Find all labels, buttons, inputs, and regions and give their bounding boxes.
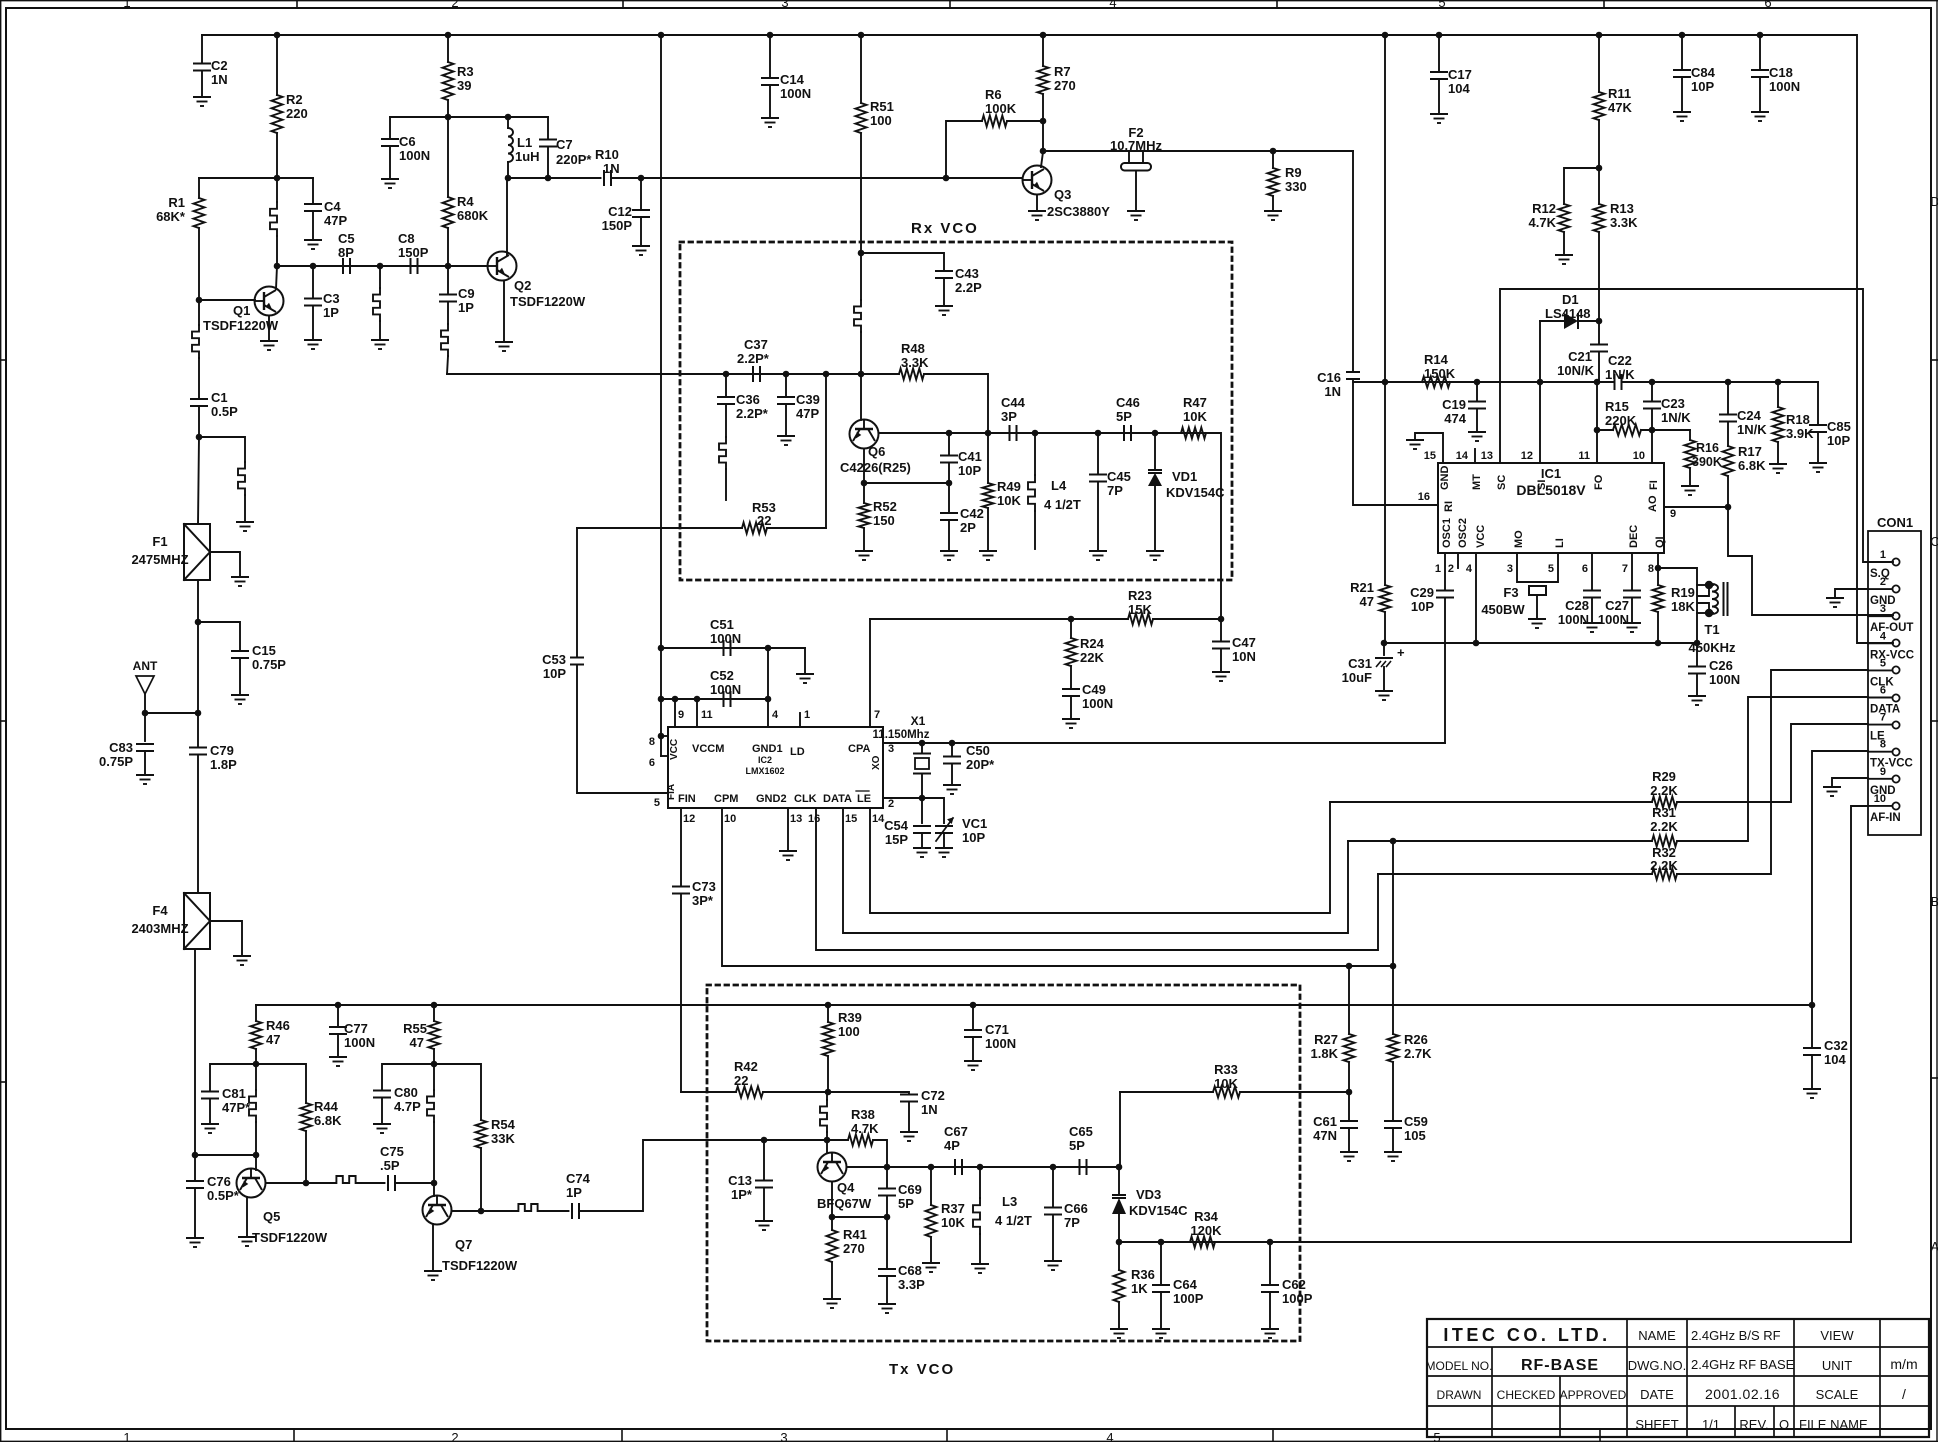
svg-text:C74: C74 — [566, 1171, 591, 1186]
CON1 pin 7 LE — [1892, 721, 1899, 728]
capacitor C84 — [1681, 35, 1683, 70]
capacitor C14 — [769, 35, 771, 78]
svg-text:QI: QI — [1654, 536, 1666, 548]
junction R26 feed — [1390, 838, 1397, 845]
IC U2 LMX1602 PLL — [668, 727, 883, 808]
transistor Q7 TSDF1220W — [423, 1196, 452, 1225]
svg-text:R47: R47 — [1183, 395, 1207, 410]
junction rail — [445, 32, 452, 39]
svg-text:C51: C51 — [710, 617, 734, 632]
capacitor C28 — [1591, 553, 1593, 590]
wire to Tx VCO — [579, 1140, 764, 1211]
capacitor C73 3P* — [680, 808, 682, 886]
resistor R23 15K — [1128, 614, 1153, 625]
svg-text:4.7K: 4.7K — [1529, 215, 1557, 230]
ground — [1688, 696, 1706, 705]
capacitor C23 — [1651, 382, 1653, 401]
svg-text:R7: R7 — [1054, 64, 1071, 79]
CON1 pin 8 TX-VCC — [1892, 748, 1899, 755]
capacitor C51 100N — [661, 647, 805, 649]
svg-text:6.8K: 6.8K — [1738, 458, 1766, 473]
ground — [1751, 112, 1769, 121]
svg-text:8P: 8P — [338, 245, 354, 260]
svg-text:104: 104 — [1448, 81, 1470, 96]
ground — [231, 577, 249, 586]
svg-text:5: 5 — [1548, 563, 1554, 575]
svg-text:10P: 10P — [958, 463, 981, 478]
svg-text:3: 3 — [781, 0, 788, 10]
svg-text:R9: R9 — [1285, 165, 1302, 180]
svg-text:C31: C31 — [1348, 656, 1372, 671]
wire R3 node — [390, 116, 548, 118]
ground — [193, 97, 211, 106]
svg-text:L3: L3 — [1002, 1194, 1017, 1209]
microstrip stub C36 open — [719, 437, 726, 469]
svg-text:C71: C71 — [985, 1022, 1009, 1037]
junction R46 — [253, 1061, 260, 1068]
ground — [1089, 551, 1107, 560]
ground — [913, 848, 931, 857]
capacitor C21 — [1598, 321, 1600, 344]
svg-text:10N/K: 10N/K — [1557, 363, 1594, 378]
border column ticks bottom — [293, 1429, 295, 1442]
ground — [632, 246, 650, 255]
svg-text:5P: 5P — [1116, 409, 1132, 424]
junction C24 — [1725, 379, 1732, 386]
junction C61 — [1346, 1089, 1353, 1096]
resistor R11 47K — [1598, 35, 1600, 92]
ground — [1062, 719, 1080, 728]
capacitor C80 — [382, 1064, 434, 1090]
ground — [1146, 551, 1164, 560]
svg-text:R10: R10 — [595, 147, 619, 162]
junction R44/collector — [303, 1180, 310, 1187]
svg-text:GND1: GND1 — [752, 743, 783, 755]
CON1 pin 9 GND — [1892, 775, 1899, 782]
svg-text:CPA: CPA — [848, 743, 870, 755]
wire LE chain — [870, 802, 1330, 913]
ground — [1555, 255, 1573, 264]
junction rail — [658, 32, 665, 39]
svg-text:+: + — [1397, 645, 1405, 660]
svg-text:L4: L4 — [1051, 478, 1067, 493]
svg-text:Q4: Q4 — [837, 1180, 855, 1195]
svg-text:TSDF1220W: TSDF1220W — [510, 294, 586, 309]
ground — [979, 551, 997, 560]
svg-text:Q2: Q2 — [514, 278, 531, 293]
ground — [1823, 787, 1841, 796]
svg-text:4 1/2T: 4 1/2T — [995, 1213, 1032, 1228]
capacitor C46 — [1124, 425, 1131, 441]
svg-text:47K: 47K — [1608, 100, 1632, 115]
wire CPA to R23 — [870, 618, 1128, 620]
capacitor C19 — [1476, 382, 1478, 401]
junction C3 — [310, 263, 317, 270]
wire VCCM feed — [660, 35, 662, 736]
svg-text:C67: C67 — [944, 1124, 968, 1139]
svg-text:2P: 2P — [960, 520, 976, 535]
ground — [1673, 112, 1691, 121]
svg-text:150P: 150P — [602, 218, 633, 233]
wire to ground — [804, 648, 806, 674]
junction R12/R13 — [1596, 165, 1603, 172]
svg-text:FI: FI — [1648, 480, 1660, 490]
junction R21 feed — [1382, 379, 1389, 386]
svg-text:47P: 47P — [796, 406, 819, 421]
svg-text:3P: 3P — [1001, 409, 1017, 424]
svg-text:OSC2: OSC2 — [1457, 518, 1469, 548]
svg-text:DRAWN: DRAWN — [1437, 1388, 1482, 1402]
ground — [329, 1057, 347, 1066]
capacitor C74 1P — [572, 1203, 579, 1219]
svg-text:10K: 10K — [997, 493, 1021, 508]
svg-text:2: 2 — [888, 798, 894, 810]
svg-text:1: 1 — [123, 1430, 130, 1442]
junction R6/R7 — [1040, 118, 1047, 125]
svg-text:6: 6 — [649, 757, 655, 769]
svg-text:7: 7 — [874, 709, 880, 721]
junction Q1 base — [196, 297, 203, 304]
svg-text:C72: C72 — [921, 1088, 945, 1103]
wire F1 port to ground — [210, 552, 240, 577]
svg-text:39: 39 — [457, 78, 471, 93]
junction R9 — [1270, 148, 1277, 155]
svg-text:100N: 100N — [344, 1035, 375, 1050]
svg-text:R4: R4 — [457, 194, 474, 209]
ground — [495, 342, 513, 351]
svg-text:MODEL NO.: MODEL NO. — [1426, 1359, 1493, 1373]
resistor R41 270 — [831, 1217, 833, 1230]
svg-text:R16: R16 — [1696, 441, 1719, 455]
svg-text:2.4GHz B/S RF: 2.4GHz B/S RF — [1691, 1328, 1781, 1343]
junction C69 — [884, 1164, 891, 1171]
svg-text:C24: C24 — [1737, 408, 1762, 423]
capacitor C26 — [1696, 643, 1698, 666]
junction Q6 base — [858, 371, 865, 378]
svg-text:C62: C62 — [1282, 1277, 1306, 1292]
svg-text:MO: MO — [1513, 530, 1525, 548]
svg-text:8: 8 — [649, 736, 655, 748]
svg-text:15: 15 — [1424, 450, 1436, 462]
resistor R33 10K — [1120, 1091, 1213, 1093]
svg-text:C6: C6 — [399, 134, 416, 149]
capacitor C18 — [1759, 35, 1761, 70]
junction VD3 bottom — [1116, 1239, 1123, 1246]
ground — [304, 340, 322, 349]
ground — [1375, 691, 1393, 700]
capacitor C53 10P — [576, 528, 578, 658]
svg-text:SI: SI — [1536, 480, 1548, 490]
svg-text:DATA: DATA — [823, 793, 852, 805]
transistor Q4 BFQ67W — [818, 1153, 847, 1182]
svg-text:220: 220 — [286, 106, 308, 121]
wire XI line — [883, 798, 944, 823]
capacitor C52 100N — [661, 698, 768, 700]
svg-text:C15: C15 — [252, 643, 276, 658]
junction pin11 — [694, 696, 701, 703]
svg-text:5: 5 — [1880, 657, 1886, 669]
svg-text:47P*: 47P* — [222, 1100, 251, 1115]
resistor R32 2.2K (CLK) — [1378, 873, 1652, 875]
ground — [971, 1264, 989, 1273]
ground — [1384, 1152, 1402, 1161]
svg-text:REV.: REV. — [1739, 1417, 1768, 1432]
svg-text:1N: 1N — [211, 72, 228, 87]
microstrip stub Q7 base — [433, 1064, 435, 1090]
wire R33 to VD3 — [1119, 1092, 1121, 1167]
capacitor C79 — [197, 713, 199, 747]
ground — [1110, 1329, 1128, 1338]
resistor R38 4.7K — [848, 1135, 873, 1146]
junction C76 — [192, 1152, 199, 1159]
capacitor C7 — [547, 117, 549, 140]
Rx VCO enclosure — [680, 242, 1232, 580]
capacitor C81 — [210, 1064, 256, 1091]
svg-text:100: 100 — [870, 113, 892, 128]
microstrip stub with ground — [199, 437, 245, 462]
junction R55 — [431, 1002, 438, 1009]
svg-text:10: 10 — [1874, 793, 1886, 805]
junction C26 — [1694, 640, 1701, 647]
svg-text:Q3: Q3 — [1054, 187, 1071, 202]
ground — [1152, 1329, 1170, 1338]
svg-text:10P: 10P — [1827, 433, 1850, 448]
svg-text:C61: C61 — [1313, 1114, 1337, 1129]
wire XO line — [883, 742, 1445, 744]
resistor R53 22 — [577, 527, 742, 529]
ground CON1 pin2 — [1835, 589, 1868, 598]
diode D1 LS4148 — [1540, 320, 1564, 322]
junction C7 bottom — [545, 175, 552, 182]
svg-text:1P: 1P — [566, 1185, 582, 1200]
capacitor C45 — [1097, 433, 1099, 474]
resistor R21 47 — [1384, 35, 1386, 382]
IC1 pin15 ground — [1415, 433, 1443, 463]
svg-text:7: 7 — [1880, 712, 1886, 724]
ground — [371, 340, 389, 349]
svg-text:10N: 10N — [1232, 649, 1256, 664]
svg-text:GND2: GND2 — [756, 793, 787, 805]
ground — [1406, 440, 1424, 449]
svg-text:1/1: 1/1 — [1702, 1417, 1720, 1432]
svg-text:2.2P: 2.2P — [955, 280, 982, 295]
ground — [1468, 432, 1486, 441]
svg-text:1N: 1N — [603, 161, 620, 176]
svg-text:C68: C68 — [898, 1263, 922, 1278]
resistor R49 — [987, 433, 989, 483]
svg-text:APPROVED: APPROVED — [1560, 1388, 1627, 1402]
junction L1 bottom — [505, 175, 512, 182]
wire R26 drop — [1392, 841, 1394, 966]
junction R49 — [985, 430, 992, 437]
svg-text:R3: R3 — [457, 64, 474, 79]
svg-text:UNIT: UNIT — [1822, 1358, 1852, 1373]
capacitor C17 — [1438, 35, 1440, 72]
CON1 pin 6 DATA — [1892, 694, 1899, 701]
wire Q6 emitter — [863, 449, 865, 484]
wire R34 line — [1119, 1241, 1851, 1243]
junction C71 — [970, 1002, 977, 1009]
capacitor C76 — [194, 1155, 196, 1181]
svg-text:3: 3 — [780, 1430, 787, 1442]
wire CPA riser — [869, 619, 871, 727]
capacitor C54 — [921, 798, 923, 823]
junction C23/FI — [1649, 427, 1656, 434]
wire AO to AF-OUT — [1664, 506, 1728, 508]
svg-text:2: 2 — [1880, 576, 1886, 588]
capacitor C43 — [861, 253, 944, 271]
junction C52 line — [658, 696, 665, 703]
junction stub — [377, 263, 384, 270]
wire Rx VCO base line y374 — [447, 373, 899, 375]
capacitor C41 — [948, 433, 950, 455]
capacitor C59 — [1384, 1121, 1402, 1128]
svg-text:C75: C75 — [380, 1144, 404, 1159]
filter F2 10.7MHz — [1128, 151, 1130, 163]
svg-text:1K: 1K — [1131, 1281, 1148, 1296]
wire CPM to Tx filter — [722, 808, 1393, 966]
ground — [1809, 463, 1827, 472]
svg-text:2.2K: 2.2K — [1650, 783, 1678, 798]
svg-text:15P: 15P — [885, 832, 908, 847]
ground — [935, 306, 953, 315]
junction R17/AO — [1725, 504, 1732, 511]
svg-text:SC: SC — [1496, 475, 1508, 490]
svg-text:AF-IN: AF-IN — [1870, 812, 1901, 824]
svg-text:7P: 7P — [1107, 483, 1123, 498]
svg-text:RI: RI — [1443, 501, 1455, 512]
transistor Q3 2SC3880Y — [1023, 166, 1052, 195]
svg-text:FIA: FIA — [666, 784, 677, 800]
junction D1/R13 — [1596, 318, 1603, 325]
svg-text:R21: R21 — [1350, 580, 1374, 595]
capacitor C29 10P — [1444, 553, 1446, 590]
ground — [424, 1271, 442, 1280]
svg-text:OSC1: OSC1 — [1441, 518, 1453, 548]
junction Q7 base — [431, 1180, 438, 1187]
svg-text:2.2K: 2.2K — [1650, 819, 1678, 834]
svg-text:B: B — [1931, 894, 1938, 909]
svg-text:1N/K: 1N/K — [1737, 422, 1767, 437]
svg-text:R36: R36 — [1131, 1267, 1155, 1282]
CON1 pin 4 RX-VCC — [1892, 639, 1899, 646]
svg-text:C12: C12 — [608, 204, 632, 219]
crystal X1 11.150Mhz — [921, 743, 923, 754]
junction R15 — [1594, 427, 1601, 434]
ground GND2 — [787, 808, 789, 851]
capacitor C85 — [1817, 382, 1819, 425]
transformer T1 450KHz — [1658, 568, 1697, 643]
capacitor C4 — [312, 178, 314, 204]
svg-text:100N: 100N — [985, 1036, 1016, 1051]
svg-text:C49: C49 — [1082, 682, 1106, 697]
ground — [855, 551, 873, 560]
microstrip stub Q7 out — [481, 1210, 512, 1212]
svg-text:C80: C80 — [394, 1085, 418, 1100]
svg-text:100N: 100N — [1082, 696, 1113, 711]
svg-text:F4: F4 — [152, 903, 168, 918]
svg-text:ITEC CO. LTD.: ITEC CO. LTD. — [1443, 1325, 1610, 1345]
capacitor C72 1N — [828, 1092, 909, 1094]
wire FI pin10 — [1651, 430, 1653, 463]
svg-text:C9: C9 — [458, 286, 475, 301]
svg-text:T1: T1 — [1704, 622, 1719, 637]
junction QI — [1655, 565, 1662, 572]
junction Q3 collector — [1040, 148, 1047, 155]
svg-text:1.8K: 1.8K — [1311, 1046, 1339, 1061]
capacitor C8 — [411, 258, 418, 274]
wire Q4 emitter — [831, 1182, 833, 1218]
svg-text:C16: C16 — [1317, 370, 1341, 385]
svg-text:C84: C84 — [1691, 65, 1716, 80]
junction C41 — [946, 430, 953, 437]
junction rail — [1436, 32, 1443, 39]
svg-text:1: 1 — [804, 709, 810, 721]
ground — [1028, 211, 1046, 220]
wire DATA chain — [843, 808, 1348, 933]
ground — [1623, 623, 1641, 632]
ground — [201, 1124, 219, 1133]
svg-text:R6: R6 — [985, 87, 1002, 102]
wire Q4 base line — [764, 1139, 848, 1141]
junction emitter — [861, 480, 868, 487]
svg-text:6.8K: 6.8K — [314, 1113, 342, 1128]
svg-text:NAME: NAME — [1638, 1328, 1676, 1343]
capacitor C71 100N — [972, 1005, 974, 1030]
junction Q1 collector — [274, 263, 281, 270]
svg-text:AF-OUT: AF-OUT — [1870, 622, 1913, 634]
svg-text:TX-VCC: TX-VCC — [1870, 758, 1913, 770]
junction rail — [274, 32, 281, 39]
svg-text:4.7P: 4.7P — [394, 1099, 421, 1114]
svg-text:Q5: Q5 — [263, 1209, 280, 1224]
resistor R27 — [1348, 966, 1350, 1034]
junction C43 — [858, 250, 865, 257]
svg-text:7: 7 — [1622, 563, 1628, 575]
resistor R42 22 — [681, 1091, 736, 1093]
junction C15 — [195, 619, 202, 626]
svg-text:33K: 33K — [491, 1131, 515, 1146]
junction C64 — [1158, 1239, 1165, 1246]
svg-text:450BW: 450BW — [1481, 602, 1525, 617]
svg-text:R12: R12 — [1532, 201, 1556, 216]
svg-text:R24: R24 — [1080, 636, 1105, 651]
svg-text:C52: C52 — [710, 668, 734, 683]
svg-text:1P: 1P — [323, 305, 339, 320]
capacitor C47 — [1220, 619, 1222, 641]
resistor R46 47 — [255, 1005, 257, 1021]
junction C12 — [638, 175, 645, 182]
filter F3 450BW — [1517, 553, 1558, 582]
junction R26 — [1390, 963, 1397, 970]
ground — [233, 956, 251, 965]
svg-text:C32: C32 — [1824, 1038, 1848, 1053]
svg-text:2: 2 — [451, 1430, 458, 1442]
capacitor C44 — [1010, 425, 1017, 441]
svg-text:R38: R38 — [851, 1107, 875, 1122]
svg-text:1uH: 1uH — [515, 149, 540, 164]
wire Q1 bias node — [199, 177, 313, 179]
svg-text:CHECKED: CHECKED — [1497, 1388, 1556, 1402]
svg-text:3P*: 3P* — [692, 893, 714, 908]
border row ticks left — [0, 359, 6, 361]
svg-text:C44: C44 — [1001, 395, 1026, 410]
svg-text:R54: R54 — [491, 1117, 516, 1132]
inductor L4 1/2T — [1034, 433, 1036, 475]
junction pin9 — [672, 696, 679, 703]
junction pin8 — [658, 733, 665, 740]
svg-text:R11: R11 — [1608, 86, 1631, 101]
